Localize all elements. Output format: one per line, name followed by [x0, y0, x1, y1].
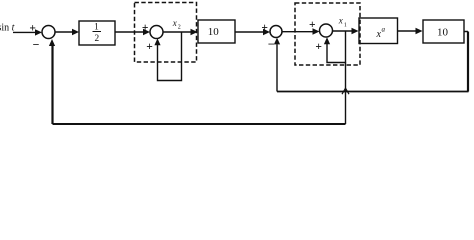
self-loop feedback wire around S4	[324, 31, 346, 63]
plus sign at summing junction S3	[261, 22, 268, 34]
svg-text:1: 1	[344, 22, 347, 28]
output wire from G4 to right edge	[464, 31, 468, 33]
wire input to summing junction S1	[13, 29, 42, 35]
wire S2 to block G2 with node x2	[163, 29, 198, 35]
wire S1 to block G1	[55, 29, 79, 35]
dashed box subsystem 2	[295, 3, 360, 65]
feedback wire vertical into S1 minus input	[49, 39, 55, 124]
wire S3 to summing junction S4	[282, 28, 320, 34]
plus sign at summing junction S1	[29, 22, 36, 34]
feedback wire x1 tap down to bottom	[345, 63, 347, 125]
input label sin t	[0, 23, 15, 34]
wire G1 to summing junction S2	[115, 29, 150, 35]
svg-text:−: −	[33, 38, 40, 52]
svg-text:+: +	[261, 22, 268, 34]
block G4 gain 10	[423, 20, 464, 43]
plus sign lower at summing junction S2	[146, 41, 153, 53]
summing junction S3	[270, 26, 282, 38]
svg-text:x: x	[338, 16, 343, 26]
svg-text:2: 2	[178, 25, 181, 31]
node label x2	[172, 18, 181, 31]
svg-text:+: +	[142, 22, 149, 34]
plus sign upper at summing junction S2	[142, 22, 149, 34]
minus sign at summing junction S1	[33, 38, 40, 52]
block G1 gain 1/2	[79, 21, 115, 45]
block G3 nonlinear x^a	[359, 18, 398, 44]
svg-text:sin t: sin t	[0, 23, 15, 34]
svg-text:+: +	[309, 19, 316, 31]
feedback wire right vertical	[467, 32, 469, 92]
block G2 gain 10	[198, 20, 235, 43]
summing junction S2	[150, 26, 163, 39]
summing junction S1	[42, 26, 55, 39]
dashed box subsystem 1	[135, 3, 197, 63]
svg-text:+: +	[146, 41, 153, 53]
svg-text:1: 1	[94, 22, 99, 32]
feedback wire bottom horizontal to S1	[53, 123, 346, 125]
svg-text:x: x	[172, 18, 177, 28]
feedback wire vertical into S3 minus input	[274, 38, 280, 92]
minus sign at summing junction S3	[268, 37, 275, 51]
node label x1	[338, 16, 347, 29]
plus sign lower at summing junction S4	[315, 41, 322, 53]
svg-text:10: 10	[208, 26, 220, 38]
svg-text:+: +	[315, 41, 322, 53]
svg-text:+: +	[29, 22, 36, 34]
svg-text:a: a	[382, 26, 386, 34]
svg-text:10: 10	[437, 27, 449, 39]
svg-text:2: 2	[94, 34, 99, 44]
wire G2 to summing junction S3	[235, 29, 270, 35]
self-loop feedback wire around S2	[154, 32, 181, 81]
crossover hop at wire junction	[342, 88, 349, 94]
feedback wire horizontal to S3	[277, 91, 469, 93]
plus sign upper at summing junction S4	[309, 19, 316, 31]
wire S4 to block G3 with node x1	[333, 28, 359, 34]
wire G3 to block G4	[398, 28, 423, 34]
svg-text:−: −	[268, 37, 275, 51]
summing junction S4	[320, 24, 333, 37]
